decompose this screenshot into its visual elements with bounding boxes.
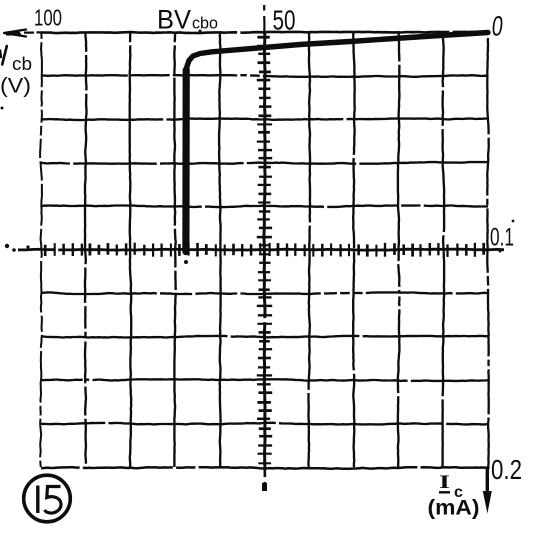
svg-text:100: 100 <box>34 5 62 31</box>
svg-text:0.1: 0.1 <box>490 224 514 252</box>
svg-text:I: I <box>439 473 450 493</box>
svg-text:BV: BV <box>157 5 191 35</box>
svg-text:(V): (V) <box>0 75 31 98</box>
svg-text:50: 50 <box>273 5 296 36</box>
svg-text:cb: cb <box>12 54 32 74</box>
svg-text:cbo: cbo <box>192 15 218 33</box>
svg-text:0.2: 0.2 <box>491 454 522 485</box>
svg-text:(mA): (mA) <box>428 497 480 520</box>
